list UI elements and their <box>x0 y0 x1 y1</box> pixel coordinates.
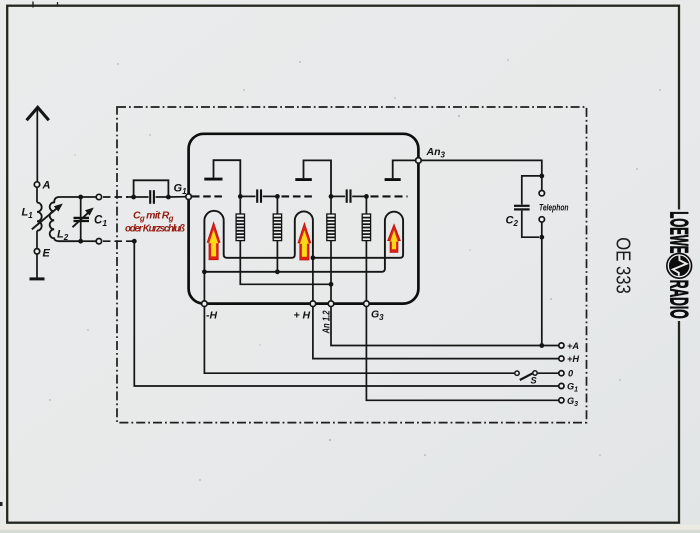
filament 3 and minus H rail <box>204 212 403 272</box>
terminal plusA <box>559 343 564 348</box>
node minusH rail left <box>202 269 207 274</box>
svg-text:RADIO: RADIO <box>665 280 693 319</box>
terminal O <box>559 371 564 376</box>
switch S contact left <box>515 371 519 375</box>
coupling capacitor 2 <box>331 189 366 202</box>
svg-text:S: S <box>531 376 538 386</box>
node anode2/cap2 <box>329 194 334 199</box>
logo emblem <box>666 253 692 279</box>
svg-text:oder Kurzschluß: oder Kurzschluß <box>125 224 185 235</box>
node plusA junction <box>539 343 544 348</box>
switch S lever <box>520 373 534 380</box>
node telephone bottom <box>539 235 544 240</box>
node Cg left <box>131 195 136 200</box>
anode A2 lead <box>304 160 332 194</box>
wire A to L1 <box>36 187 38 202</box>
R1 bottom lead and An12 rail <box>240 241 331 285</box>
coil L1 <box>37 203 42 231</box>
dash-dot chassis box <box>117 107 587 423</box>
cathode arrow 1 <box>207 222 220 259</box>
logo backing mask <box>672 210 686 322</box>
anode A2 bar <box>295 178 312 181</box>
wire minusH pin to switch <box>204 307 514 374</box>
wire telephone to plusA line <box>541 237 543 345</box>
anode A1 bar <box>204 178 222 181</box>
switch S contact right <box>533 371 537 375</box>
node R2 minusH <box>275 269 280 274</box>
pin G3 <box>364 301 370 307</box>
anode A3 lead to An3 pin <box>393 160 416 178</box>
svg-text:OE 333: OE 333 <box>612 237 634 293</box>
coupling capacitor 1 <box>240 189 277 202</box>
wire An12 pin to plusA terminal <box>331 307 558 346</box>
resistor R3 lead <box>330 196 332 214</box>
tube envelope <box>189 134 419 304</box>
terminal E <box>34 249 39 254</box>
left edge mark <box>0 502 3 506</box>
terminal G3 <box>559 398 564 403</box>
svg-text:A: A <box>42 180 51 192</box>
resistor R4 lead <box>365 196 367 214</box>
telephone terminal bottom <box>539 217 544 222</box>
anode A3 bar <box>385 178 401 181</box>
pin plusH <box>310 301 316 307</box>
resistor R1 lead <box>239 196 241 214</box>
node telephone top <box>539 174 544 179</box>
node An12 rail <box>329 282 334 287</box>
variometer arrow across L1 L2 <box>32 204 63 230</box>
wire tank bottom to G1 terminal <box>134 241 558 386</box>
terminal plusH <box>559 356 564 361</box>
wire Cg to G1 pin <box>168 196 186 198</box>
telephone terminal top <box>539 191 544 196</box>
antenna arrow <box>27 107 49 120</box>
svg-text:E: E <box>43 248 51 260</box>
telephone bottom lead <box>541 222 543 237</box>
terminal A <box>34 182 39 187</box>
wire to Cg node <box>127 196 134 198</box>
wire G3 pin to G3 terminal <box>366 307 558 401</box>
svg-text:0: 0 <box>568 369 574 379</box>
C1 variable arrow <box>73 208 94 228</box>
filament 1 and 2 with link <box>204 211 313 272</box>
wire L2 top to C1 top node <box>81 196 97 198</box>
cathode arrow 3 <box>388 224 401 252</box>
node Cg right <box>166 195 171 200</box>
telephone top lead <box>541 176 543 191</box>
capacitor C1 <box>74 197 90 241</box>
pin An3 <box>416 158 422 164</box>
R3 bottom lead to An12 pin <box>330 241 332 301</box>
dashed wire into box bottom <box>103 240 133 242</box>
R4 bottom lead to G3 pin <box>365 241 367 301</box>
node cap2/grid3 <box>364 194 369 199</box>
wire switch to O terminal <box>538 372 559 374</box>
svg-text:LOEWE: LOEWE <box>665 211 693 253</box>
terminal G1 <box>559 383 564 388</box>
node anode1/cap1 <box>238 194 243 199</box>
tick mark top 2 <box>57 2 59 7</box>
coil L2 with top and bottom leads <box>50 197 81 241</box>
wire L1 to E <box>36 231 38 249</box>
Rg bypass loop <box>134 180 169 197</box>
paper specks <box>49 59 660 480</box>
resistor R4 <box>362 214 370 241</box>
pin An12 <box>328 301 334 307</box>
resistor R1 <box>236 214 244 241</box>
cathode arrow 2 <box>298 223 311 260</box>
tick mark top 1 <box>32 2 34 8</box>
resistor R2 lead <box>276 196 278 214</box>
dashed wire into box top <box>103 196 128 198</box>
grid 2 dashes <box>282 195 314 197</box>
resistor R3 <box>327 214 335 241</box>
wire L2 bottom to node <box>81 240 97 242</box>
node cap1/grid2 <box>275 194 280 199</box>
node C1 top <box>78 195 83 200</box>
capacitor Cg <box>134 190 169 204</box>
bottom scan strip cream <box>0 525 700 533</box>
grid 3 dashes <box>371 195 408 197</box>
pin G1 <box>186 194 192 200</box>
node tank bottom to G1 line <box>132 239 137 244</box>
svg-text:Telephon: Telephon <box>539 203 569 213</box>
resistor R2 <box>273 214 281 241</box>
antenna lead wire <box>36 110 38 182</box>
terminal circle bottom right of tank <box>96 239 101 244</box>
R2 bottom lead to minusH rail <box>276 241 278 272</box>
bottom scan edge grey <box>0 530 700 533</box>
plusH pin lead <box>312 258 314 301</box>
grid 1 dashes <box>192 195 223 197</box>
anode A1 lead <box>214 160 241 194</box>
svg-text:+H: +H <box>567 354 579 364</box>
svg-text:+ H: + H <box>294 310 311 322</box>
node C1 bottom <box>78 239 83 244</box>
svg-text:+A: +A <box>567 341 579 351</box>
pin minusH <box>202 301 208 307</box>
svg-text:-H: -H <box>206 310 217 322</box>
minusH pin lead <box>203 272 205 301</box>
svg-text:Cg mit Rg: Cg mit Rg <box>133 210 174 223</box>
capacitor C2 branch <box>514 176 542 237</box>
terminal circle top right of tank <box>96 194 101 199</box>
wire E to earth <box>36 254 38 278</box>
node filament2 plusH <box>311 255 316 260</box>
earth bar <box>30 277 45 280</box>
wire An3 to telephone branch <box>421 160 542 176</box>
wire plusH pin to plusH terminal <box>313 307 559 359</box>
